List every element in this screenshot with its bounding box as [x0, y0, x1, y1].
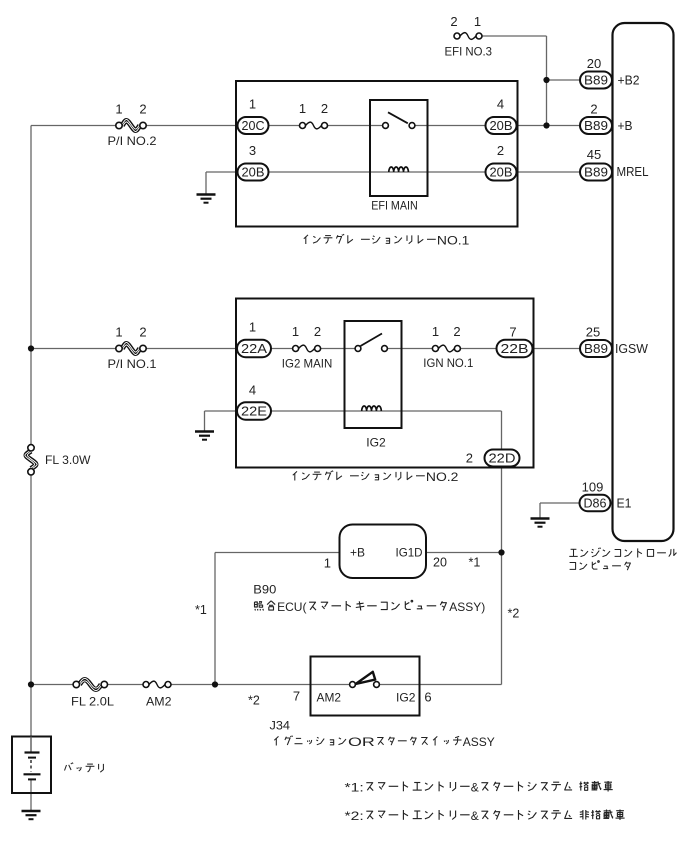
- svg-text:45: 45: [587, 147, 601, 162]
- svg-text:B89: B89: [584, 342, 608, 356]
- svg-text:AM2: AM2: [317, 691, 342, 705]
- svg-text:*2:: *2:: [345, 809, 364, 823]
- svg-text:ASSY: ASSY: [463, 735, 495, 749]
- svg-text:22B: 22B: [501, 342, 529, 356]
- svg-text:&: &: [471, 809, 479, 823]
- svg-text:+B2: +B2: [618, 74, 640, 88]
- svg-text:4: 4: [249, 383, 256, 398]
- svg-text:1: 1: [324, 556, 331, 571]
- svg-text:20B: 20B: [490, 119, 513, 133]
- svg-text:NO.2: NO.2: [426, 470, 459, 484]
- svg-text:2: 2: [314, 324, 321, 339]
- svg-text:NO.1: NO.1: [437, 233, 470, 247]
- svg-text:1: 1: [292, 324, 299, 339]
- svg-text:2: 2: [321, 101, 328, 116]
- svg-text:IG2 MAIN: IG2 MAIN: [282, 357, 333, 371]
- svg-text:1: 1: [474, 14, 481, 29]
- svg-text:22E: 22E: [241, 404, 267, 418]
- svg-text:7: 7: [293, 689, 300, 704]
- svg-text:1: 1: [115, 102, 122, 117]
- svg-text:EFI NO.3: EFI NO.3: [445, 45, 493, 59]
- svg-text:MREL: MREL: [617, 165, 649, 179]
- svg-text:2: 2: [450, 14, 457, 29]
- svg-text:P/I NO.2: P/I NO.2: [108, 134, 157, 148]
- svg-text:20B: 20B: [242, 165, 265, 179]
- svg-text:D86: D86: [584, 496, 607, 510]
- svg-text:2: 2: [466, 451, 473, 466]
- svg-text:+B: +B: [350, 546, 365, 560]
- svg-text:*2: *2: [248, 694, 260, 708]
- svg-text:IG2: IG2: [366, 436, 386, 450]
- svg-text:20: 20: [433, 556, 447, 570]
- svg-text:B90: B90: [253, 583, 276, 597]
- svg-text:AM2: AM2: [146, 695, 172, 709]
- svg-text:EFI MAIN: EFI MAIN: [371, 199, 418, 213]
- svg-text:&: &: [471, 780, 479, 794]
- svg-text:FL 3.0W: FL 3.0W: [45, 453, 91, 467]
- svg-text:20B: 20B: [490, 165, 513, 179]
- svg-text:109: 109: [582, 480, 604, 495]
- svg-text:3: 3: [249, 143, 256, 158]
- svg-text:22D: 22D: [489, 451, 516, 465]
- svg-text:20: 20: [587, 56, 601, 71]
- svg-text:2: 2: [453, 324, 460, 339]
- svg-text:OR: OR: [348, 735, 375, 749]
- svg-text:*1: *1: [469, 556, 481, 570]
- svg-text:2: 2: [497, 143, 504, 158]
- svg-text:B89: B89: [584, 165, 608, 179]
- svg-text:1: 1: [299, 101, 306, 116]
- svg-text:4: 4: [497, 97, 504, 112]
- svg-text:IG1D: IG1D: [396, 546, 423, 560]
- svg-text:1: 1: [115, 325, 122, 340]
- svg-text:+B: +B: [618, 119, 633, 133]
- svg-text:7: 7: [509, 325, 516, 340]
- svg-text:*2: *2: [508, 607, 520, 621]
- svg-text:25: 25: [586, 325, 600, 340]
- svg-text:J34: J34: [270, 719, 291, 733]
- svg-text:2: 2: [139, 325, 146, 340]
- svg-text:6: 6: [424, 690, 431, 705]
- svg-text:2: 2: [590, 102, 597, 117]
- svg-text:22A: 22A: [241, 342, 268, 356]
- svg-text:ECU(: ECU(: [277, 600, 306, 614]
- svg-text:P/I NO.1: P/I NO.1: [108, 357, 157, 371]
- svg-text:B89: B89: [584, 73, 608, 87]
- svg-text:IGN NO.1: IGN NO.1: [423, 356, 473, 370]
- svg-text:1: 1: [432, 324, 439, 339]
- svg-text:20C: 20C: [242, 119, 265, 133]
- svg-text:*1:: *1:: [345, 780, 364, 794]
- svg-text:IGSW: IGSW: [615, 342, 648, 356]
- svg-text:2: 2: [139, 102, 146, 117]
- svg-text:IG2: IG2: [396, 691, 416, 705]
- svg-text:1: 1: [249, 320, 256, 335]
- svg-text:E1: E1: [617, 497, 632, 511]
- svg-text:*1: *1: [195, 603, 207, 617]
- svg-text:1: 1: [249, 97, 256, 112]
- svg-text:FL 2.0L: FL 2.0L: [71, 695, 114, 709]
- svg-text:ASSY): ASSY): [449, 600, 485, 614]
- svg-text:B89: B89: [584, 119, 608, 133]
